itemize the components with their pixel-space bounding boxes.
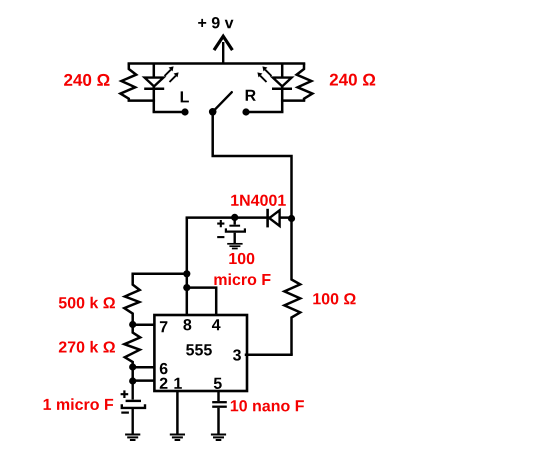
capacitor C2 polarity minus bbox=[121, 412, 129, 414]
ground under C1 bbox=[227, 244, 242, 249]
pin 5 label bbox=[214, 378, 222, 389]
wire pin4 riser bbox=[187, 288, 216, 315]
node junction to 500k bbox=[183, 270, 190, 277]
wire LED-left bottom to L contact bbox=[154, 111, 185, 114]
node pin2 junction bbox=[129, 377, 136, 384]
switch SPDT: L contact bbox=[181, 108, 188, 115]
wire LED-right bottom to R contact bbox=[246, 111, 282, 114]
switch SPDT: lever bbox=[213, 92, 232, 112]
wire pin 1 down bbox=[176, 391, 179, 434]
pin 6 label bbox=[160, 363, 168, 374]
wire to pin 2 bbox=[133, 379, 155, 382]
label L bbox=[181, 91, 189, 102]
LED left light arrows bbox=[165, 66, 179, 82]
label 100 ohm bbox=[313, 293, 355, 304]
pin 4 label bbox=[212, 319, 221, 330]
wire pin 3 to 100 ohm bbox=[246, 353, 292, 356]
LED left (D-L) bbox=[144, 64, 164, 113]
capacitor C1 polarity minus bbox=[217, 236, 224, 238]
wire between pin6 and pin2 nodes bbox=[131, 367, 134, 381]
diode D1 1N4001 bbox=[268, 209, 280, 228]
capacitor C1 100 micro F (electrolytic) bbox=[226, 217, 245, 243]
wire diode branch left corner down to pin8 bbox=[186, 218, 189, 315]
switch SPDT: common pole bbox=[209, 108, 217, 116]
resistor 270 k ohm bbox=[124, 325, 140, 368]
wire resistor-right bottom connector bbox=[282, 99, 304, 102]
wire pin 5 down bbox=[217, 391, 220, 401]
capacitor C3 10 nano F bbox=[212, 402, 227, 434]
pin 8 label bbox=[183, 319, 191, 330]
ground under C2 bbox=[125, 435, 140, 441]
ground under pin 1 bbox=[170, 435, 185, 441]
label 270 k ohm bbox=[59, 341, 115, 353]
LED right light arrows bbox=[257, 66, 271, 82]
label R bbox=[246, 90, 256, 101]
wire switch common down, right, and down to diode node bbox=[213, 112, 292, 220]
pin 7 label bbox=[160, 321, 168, 332]
resistor 100 ohm bbox=[284, 219, 300, 355]
label 240 ohm left bbox=[64, 74, 109, 86]
wire resistor-left bottom connector bbox=[129, 99, 154, 102]
pin 3 label bbox=[233, 349, 241, 360]
capacitor C2 polarity plus bbox=[121, 390, 129, 398]
resistor 500 k ohm bbox=[124, 274, 139, 325]
label 500 k ohm bbox=[59, 297, 115, 309]
resistor 240 ohm left bbox=[120, 64, 136, 101]
label 1N4001 bbox=[231, 195, 286, 206]
wire to pin 6 bbox=[133, 366, 155, 369]
power arrow to +9V bbox=[215, 36, 232, 64]
node diode-resistor junction bbox=[288, 215, 295, 222]
wire diode branch horizontal bbox=[187, 216, 292, 219]
label 10 nano F bbox=[231, 400, 304, 411]
node capacitor junction bbox=[231, 214, 238, 221]
ground under C3 bbox=[211, 435, 226, 441]
node +9V supply label bbox=[198, 17, 233, 28]
capacitor C2 1 micro F (electrolytic) bbox=[122, 381, 145, 434]
LED right (D-R) bbox=[272, 64, 292, 113]
wire top rail bbox=[129, 62, 304, 65]
pin 2 label bbox=[160, 378, 168, 389]
capacitor C1 polarity plus bbox=[217, 220, 224, 227]
label 240 ohm right bbox=[330, 74, 375, 86]
wire to pin 7 bbox=[133, 323, 155, 326]
node pin6 junction bbox=[129, 363, 136, 370]
pin 1 label bbox=[174, 378, 181, 389]
node pin7 junction bbox=[129, 321, 136, 328]
label 555 bbox=[186, 344, 212, 355]
resistor 240 ohm right bbox=[297, 64, 313, 101]
wire to 500k top bbox=[133, 273, 187, 276]
switch SPDT: R contact bbox=[242, 108, 249, 115]
label 1 micro F bbox=[44, 398, 114, 410]
op IC U1 555 body bbox=[154, 315, 247, 391]
node junction to pin4 bbox=[183, 284, 190, 291]
label 100 micro F bbox=[214, 253, 270, 285]
